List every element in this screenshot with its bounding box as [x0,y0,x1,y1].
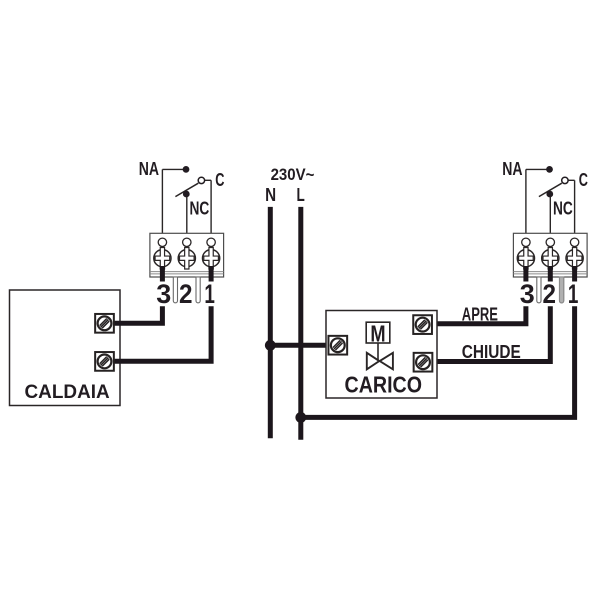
svg-text:CHIUDE: CHIUDE [462,342,521,362]
svg-text:230V~: 230V~ [271,165,315,184]
svg-text:N: N [265,185,276,205]
svg-text:L: L [296,185,304,205]
svg-text:CALDAIA: CALDAIA [25,381,110,403]
svg-text:CARICO: CARICO [345,371,423,397]
svg-text:APRE: APRE [462,305,498,325]
svg-text:M: M [370,321,385,347]
